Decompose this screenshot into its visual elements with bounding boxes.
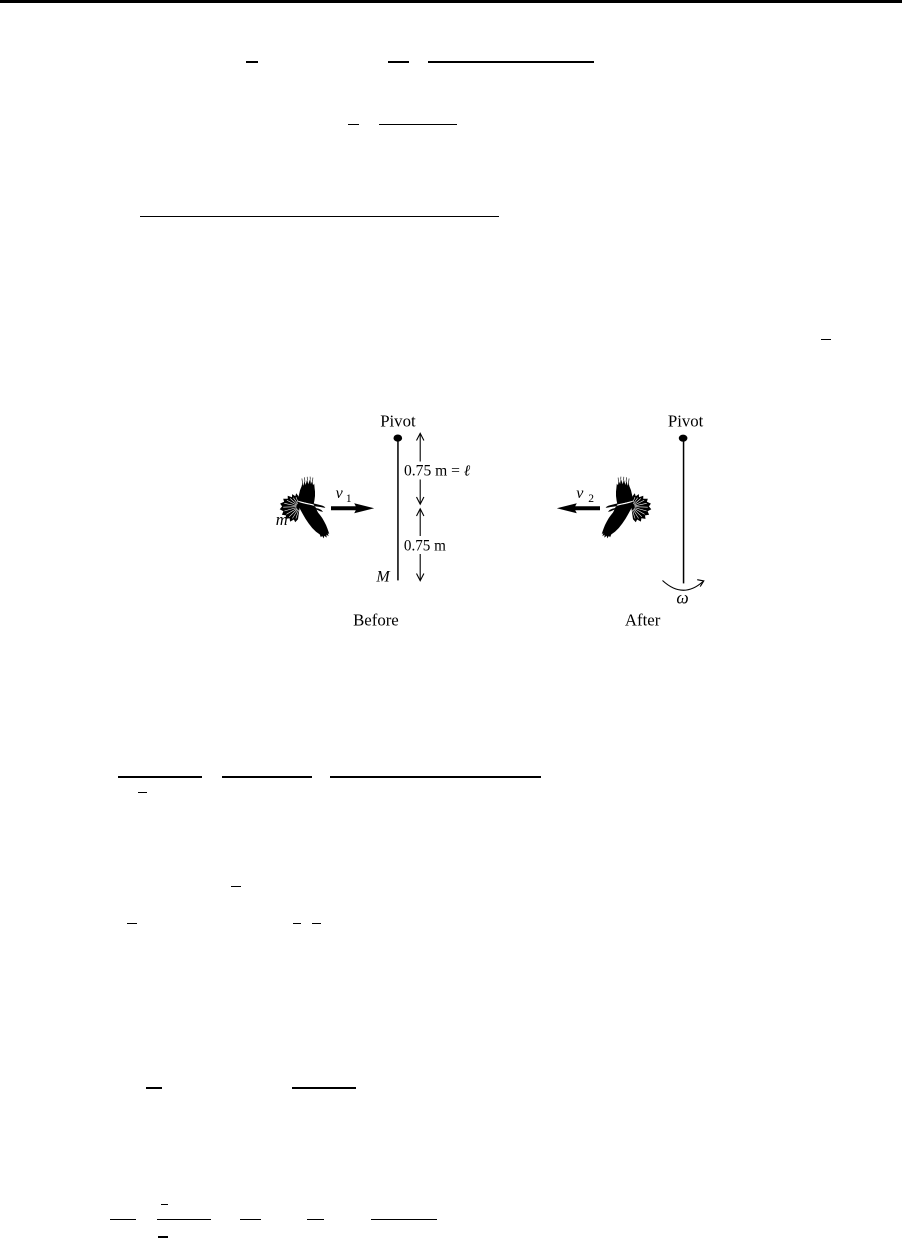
fraction bar (eq line 8b) <box>292 1087 357 1088</box>
denominator dash (bottom fraction, clipped) <box>158 1236 168 1238</box>
svg-text:v: v <box>336 485 344 502</box>
fraction bar (eq line 1, long) <box>428 61 595 62</box>
small fraction bar below line 5 <box>138 792 147 793</box>
small bar (eq line 7c) <box>312 923 322 924</box>
fraction bar (bottom line b) <box>157 1219 211 1220</box>
fraction bar (bottom line d) <box>307 1219 323 1220</box>
answer underline (eq line 3) <box>140 216 499 217</box>
left bird (mass m) <box>280 477 330 539</box>
fraction bar (eq line 2, short) <box>348 124 359 125</box>
left rod <box>397 441 399 580</box>
upper measure arrow (0.75 m = l) <box>417 433 424 504</box>
svg-text:ω: ω <box>676 588 688 608</box>
fraction bar (eq line 1, short) <box>246 61 258 62</box>
svg-text:1: 1 <box>346 493 352 505</box>
left pivot dot <box>394 435 403 442</box>
right bird flying away (mirrored) <box>602 477 652 539</box>
svg-text:m: m <box>276 510 288 529</box>
svg-text:Pivot: Pivot <box>668 411 704 430</box>
small bar (eq line 7a) <box>127 923 137 924</box>
small bar (eq line 8a) <box>146 1087 162 1088</box>
velocity arrow v1 (thick, pointing right) <box>331 503 374 513</box>
svg-text:After: After <box>625 610 661 629</box>
svg-text:0.75 m: 0.75 m <box>404 538 446 555</box>
svg-text:2: 2 <box>588 493 594 505</box>
numerator dash (bottom fraction) <box>161 1204 169 1205</box>
small bar (eq line 7b) <box>293 923 302 924</box>
fraction bar (eq line 5c) <box>330 776 542 777</box>
minus sign dash (right margin) <box>821 339 831 341</box>
rotation arc with arrowhead (omega) <box>663 580 704 591</box>
svg-text:Pivot: Pivot <box>380 411 416 430</box>
svg-text:Before: Before <box>353 610 399 629</box>
velocity arrow v2 (thick, pointing left) <box>557 503 600 513</box>
right pivot dot <box>679 435 688 442</box>
fraction bar (eq line 2, long) <box>379 124 457 125</box>
svg-text:v: v <box>576 485 584 502</box>
right rod <box>683 441 685 583</box>
fraction bar (eq line 5a) <box>118 776 202 777</box>
fraction bar (eq line 5b) <box>222 776 311 777</box>
fraction bar (bottom line e) <box>371 1219 437 1220</box>
top page border bar <box>0 0 902 3</box>
fraction bar (eq line 1, mid) <box>388 61 409 62</box>
fraction bar (bottom line c) <box>240 1219 261 1220</box>
minus dash (eq line 6) <box>231 886 241 888</box>
svg-text:0.75 m = ℓ: 0.75 m = ℓ <box>404 462 471 479</box>
svg-text:M: M <box>375 569 391 586</box>
fraction bar (bottom line a) <box>110 1219 136 1220</box>
lower measure arrow (0.75 m) <box>417 509 424 581</box>
